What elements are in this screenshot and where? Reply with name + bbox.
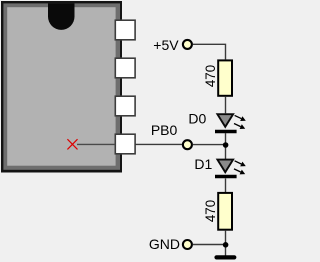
junction node (GND rail) bbox=[223, 242, 229, 248]
svg-text:+5V: +5V bbox=[153, 37, 179, 53]
svg-text:D0: D0 bbox=[188, 111, 206, 127]
resistor R1 bbox=[218, 60, 232, 95]
terminal PB0 bbox=[183, 140, 192, 149]
svg-text:D1: D1 bbox=[194, 156, 212, 172]
wire PB0 terminal to junction bbox=[193, 144, 226, 146]
wire +5V terminal to R1 bbox=[193, 44, 226, 59]
wire R2 to ground through junction bbox=[225, 231, 227, 256]
wire D1 to R2 bbox=[225, 178, 227, 193]
pin box 4 (PB0) bbox=[115, 134, 135, 154]
wire pin 4 to PB0 terminal bbox=[135, 143, 182, 145]
pin box 3 bbox=[115, 96, 135, 116]
svg-text:PB0: PB0 bbox=[151, 122, 178, 138]
wire R1 to D0 bbox=[225, 97, 227, 114]
LED D0 bbox=[215, 113, 246, 131]
resistor R2 bbox=[218, 193, 232, 230]
svg-text:GND: GND bbox=[149, 236, 180, 252]
wire D0 to D1 through junction bbox=[225, 133, 227, 160]
junction node (D0/D1/PB0) bbox=[223, 142, 229, 148]
wire GND terminal to junction bbox=[193, 244, 226, 246]
red X unconnected-node marker bbox=[67, 139, 77, 149]
svg-text:470: 470 bbox=[203, 200, 218, 222]
terminal GND bbox=[183, 240, 192, 249]
pin box 1 bbox=[115, 20, 135, 40]
terminal +5V bbox=[183, 40, 192, 49]
wire internal node to pin 4 bbox=[77, 143, 115, 145]
IC U1 pin-1 notch bbox=[48, 3, 75, 29]
LED D1 bbox=[215, 159, 246, 177]
svg-text:470: 470 bbox=[203, 65, 218, 87]
IC U1 body bbox=[1, 1, 122, 173]
ground symbol bbox=[217, 255, 235, 259]
pin box 2 bbox=[115, 58, 135, 78]
